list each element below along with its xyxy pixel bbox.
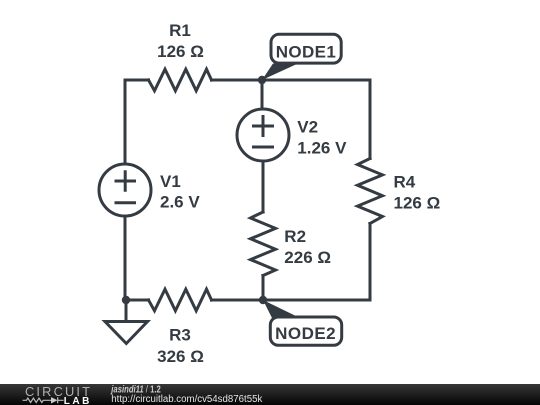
svg-text:V1: V1 [160,172,181,191]
svg-text:326 Ω: 326 Ω [157,347,204,366]
svg-text:126 Ω: 126 Ω [157,42,204,61]
svg-text:2.6 V: 2.6 V [160,193,200,212]
svg-text:NODE1: NODE1 [276,42,336,61]
svg-text:226 Ω: 226 Ω [284,248,331,267]
svg-text:LAB: LAB [64,396,90,405]
svg-text:R1: R1 [169,21,191,40]
svg-text:126 Ω: 126 Ω [394,193,441,212]
svg-text:NODE2: NODE2 [275,324,336,343]
svg-text:1.26 V: 1.26 V [297,139,347,158]
svg-text:V2: V2 [297,117,318,136]
svg-text:R3: R3 [169,326,191,345]
svg-text:R4: R4 [394,173,416,192]
svg-text:R2: R2 [284,227,306,246]
svg-text:http://circuitlab.com/cv54sd87: http://circuitlab.com/cv54sd876t55k [111,394,263,405]
